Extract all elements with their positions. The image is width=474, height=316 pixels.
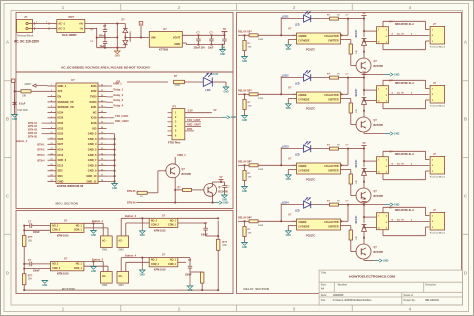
wire S3 to SW3 [102, 262, 104, 272]
svg-text:IO32: IO32 [58, 121, 64, 125]
ground emitter 1 [385, 73, 400, 77]
svg-text:LED: LED [206, 89, 211, 92]
svg-text:2: 2 [386, 215, 387, 217]
svg-text:2: 2 [386, 88, 387, 90]
resistor R3 470R led [174, 75, 185, 87]
svg-text:GND_4: GND_4 [88, 142, 97, 146]
relay K3 SRD-05VDC-SL-C [377, 150, 415, 173]
transistor Q4 BC547B [356, 244, 383, 259]
ground emitter bus [214, 201, 229, 205]
transistor Q5 BC547B [166, 164, 191, 178]
svg-text:TXD_UART: TXD_UART [115, 114, 129, 118]
svg-text:AC_IN: 110-220V: AC_IN: 110-220V [14, 40, 40, 44]
switch module SW2 [117, 236, 129, 252]
svg-text:10K: 10K [356, 50, 358, 54]
wire S1 bottom [23, 229, 50, 231]
svg-text:AC_DC BRIDGE VOLTAGE AREA, PL: AC_DC BRIDGE VOLTAGE AREA, PLEASE DO NOT… [61, 66, 150, 70]
net label Button_2 [121, 214, 149, 219]
resistor R17 10K pulldown [243, 221, 252, 242]
label mcu section [56, 201, 78, 205]
svg-text:1: 1 [432, 160, 433, 162]
svg-text:10K: 10K [356, 236, 358, 240]
svg-text:R??: R?? [222, 241, 227, 244]
svg-text:+Vo: +Vo [79, 22, 84, 26]
switch S1 KFM-1010 [50, 218, 84, 237]
svg-text:RELAY_SECTION: RELAY_SECTION [244, 287, 269, 291]
wire 5V output [182, 34, 225, 36]
svg-text:U?: U? [288, 157, 292, 161]
svg-text:BTN-01: BTN-01 [28, 121, 37, 125]
svg-text:PN?: PN? [69, 15, 75, 19]
svg-text:(+): (+) [91, 29, 94, 31]
ground S4 [139, 258, 145, 277]
wire led anode [185, 81, 204, 83]
svg-text:SW1: SW1 [102, 249, 108, 252]
ground relay input 1 [242, 57, 248, 63]
svg-text:K?: K? [390, 20, 394, 23]
resistor R20 1K led [311, 144, 348, 150]
svg-text:470R: 470R [175, 84, 181, 87]
diode D2 1N4007 [123, 31, 132, 48]
svg-text:IO26: IO26 [58, 137, 64, 141]
svg-text:GND: GND [42, 285, 47, 287]
wire coil pins 1 [363, 30, 376, 42]
resistor R12 220R [249, 161, 264, 171]
wire opto collector 2 [341, 93, 343, 95]
svg-text:GND: GND [286, 49, 291, 51]
svg-text:(+): (+) [91, 41, 94, 43]
svg-text:BTN-03: BTN-03 [28, 128, 37, 132]
svg-text:5: 5 [386, 222, 387, 224]
svg-text:LED: LED [295, 25, 300, 27]
svg-text:EMITTER: EMITTER [328, 171, 338, 173]
resistor R25 base [345, 226, 358, 252]
svg-text:Relay_3: Relay_3 [114, 98, 124, 102]
svg-text:Button_4: Button_4 [16, 139, 28, 143]
svg-text:C?: C? [197, 32, 201, 35]
wire ftdi rxd [185, 123, 202, 127]
svg-text:AC_IN: AC_IN [397, 92, 404, 95]
svg-text:AC~: AC~ [102, 275, 107, 278]
resistor R23 base [345, 99, 358, 125]
svg-text:Relay_1: Relay_1 [114, 88, 124, 92]
svg-text:GND: GND [242, 61, 247, 63]
svg-text:C?: C? [204, 222, 208, 225]
svg-text:EMITTER: EMITTER [328, 41, 338, 43]
svg-text:CMD: CMD [58, 179, 64, 183]
wire S2 to SW2 [120, 218, 122, 236]
wire base Q5 [158, 171, 166, 193]
relay K4 SRD-05VDC-SL-C [377, 206, 415, 229]
power port 5V out [222, 27, 228, 35]
net label RELAY-03 [238, 160, 251, 164]
wire S1 top [23, 225, 50, 227]
ground S3 [91, 262, 97, 273]
wire S3 lower to SW3 [84, 266, 108, 271]
capacitor C3 220uF [194, 32, 206, 50]
capacitor C8 100nF [28, 259, 40, 273]
svg-text:5V: 5V [363, 12, 366, 15]
wire S2 right to cap [178, 217, 219, 225]
svg-text:IO22: IO22 [91, 89, 97, 93]
svg-text:10K: 10K [22, 96, 27, 98]
svg-text:VOUT: VOUT [173, 35, 181, 39]
svg-text:BC547B: BC547B [374, 124, 384, 127]
svg-text:COM_2: COM_2 [151, 264, 160, 266]
ground emitter 4 [374, 259, 389, 263]
wire 3v3 rail mcu [14, 91, 16, 114]
resistor R15 10K pulldown [243, 94, 252, 115]
svg-text:Q?: Q? [218, 186, 222, 189]
resistor R16 10K pulldown [243, 165, 252, 186]
svg-text:+: + [140, 22, 142, 26]
wire opto collector 4 [341, 220, 343, 222]
ground mcu right [112, 184, 118, 190]
net label Button_4 [121, 254, 149, 259]
svg-text:220uF 25V: 220uF 25V [194, 47, 206, 49]
svg-text:GND_5: GND_5 [88, 148, 97, 152]
svg-text:U?: U? [288, 213, 292, 217]
svg-text:MR.ASHGD: MR.ASHGD [425, 299, 438, 302]
wire collector to coil 3 [363, 182, 365, 189]
wire S3 top [23, 263, 50, 265]
svg-text:3: 3 [386, 42, 387, 44]
svg-text:GND_7: GND_7 [88, 158, 97, 162]
svg-text:HOWTOELECTRONICS.COM: HOWTOELECTRONICS.COM [349, 275, 395, 279]
svg-text:IO2: IO2 [116, 79, 121, 83]
wire relay contact top 4 [383, 207, 429, 215]
svg-text:LED3: LED3 [282, 144, 289, 148]
svg-text:D: D [6, 271, 9, 276]
svg-text:RXD0: RXD0 [90, 100, 98, 104]
svg-text:IO23: IO23 [91, 84, 97, 88]
ground relay input 2 [242, 116, 248, 122]
svg-text:10K: 10K [222, 245, 227, 247]
mcu section box [16, 72, 233, 209]
svg-text:COM_1: COM_1 [168, 264, 177, 266]
wire ftdi dtr [185, 127, 194, 131]
svg-text:Date:: Date: [321, 294, 327, 297]
switch S4 KFM-1010 [149, 253, 178, 272]
wire opto anode branch 2 [281, 76, 296, 94]
capacitor C2 10uF [91, 38, 108, 49]
wire collector rail 2 [345, 73, 364, 94]
svg-text:100nF: 100nF [185, 275, 192, 277]
svg-text:BC547B: BC547B [374, 251, 384, 254]
net label relay-05 row [127, 190, 136, 193]
svg-text:5: 5 [386, 36, 387, 38]
wire collector rail 1 [345, 14, 364, 35]
svg-text:GND: GND [91, 271, 96, 273]
svg-text:AC~: AC~ [118, 240, 123, 243]
svg-text:GND_8: GND_8 [88, 163, 97, 167]
svg-text:Q?: Q? [374, 246, 378, 249]
svg-text:KFM-1010: KFM-1010 [57, 273, 69, 276]
svg-text:RXD_UART: RXD_UART [115, 119, 129, 123]
svg-text:GND_10: GND_10 [86, 174, 97, 178]
svg-text:220R: 220R [258, 39, 264, 41]
svg-text:S?: S? [64, 218, 68, 222]
svg-text:3: 3 [432, 41, 433, 43]
power port 5V relay 2 [362, 71, 367, 78]
svg-text:C?: C? [210, 32, 214, 35]
svg-text:IO34: IO34 [58, 110, 64, 114]
svg-text:IO27: IO27 [58, 142, 64, 146]
svg-text:IO19: IO19 [91, 116, 97, 120]
svg-text:AC~: AC~ [102, 240, 107, 243]
net label row2 [127, 201, 136, 204]
net label Button_3 [84, 258, 104, 263]
wire -Vo rail [85, 28, 98, 48]
svg-text:U?: U? [288, 86, 292, 90]
diode D6 1N4007 flyback [355, 148, 366, 183]
svg-text:KFM-1010: KFM-1010 [57, 234, 69, 237]
wire relay input 4 [238, 220, 282, 222]
svg-text:SENSOR_VP: SENSOR_VP [58, 100, 74, 104]
wire relay input 2 [238, 93, 282, 95]
svg-text:GND: GND [394, 73, 400, 76]
svg-text:NO_2: NO_2 [151, 260, 158, 262]
svg-text:BTN-1: BTN-1 [37, 143, 45, 146]
svg-text:GND_2: GND_2 [58, 158, 67, 162]
svg-text:COM_1: COM_1 [74, 268, 83, 270]
svg-text:5: 5 [386, 95, 387, 97]
svg-text:2: 2 [432, 165, 433, 167]
svg-text:+3.3V: +3.3V [212, 72, 219, 76]
svg-text:CATHODE: CATHODE [298, 170, 310, 173]
wire mcu gnd rail right [107, 134, 116, 184]
svg-text:ANODE: ANODE [298, 94, 307, 97]
svg-text:1K: 1K [337, 73, 340, 75]
mcu left button net labels [28, 121, 48, 139]
svg-text:U?: U? [71, 78, 75, 82]
wire coil pins 4 [363, 216, 376, 228]
terminal block J3 output [430, 22, 446, 49]
svg-text:-Vo: -Vo [79, 27, 83, 31]
capacitor C5 104 [221, 32, 227, 50]
svg-text:R??: R?? [28, 274, 33, 277]
svg-text:GND: GND [174, 42, 180, 46]
svg-text:3: 3 [386, 228, 387, 230]
mcu left lower net labels [37, 143, 45, 162]
svg-text:DTR: DTR [187, 127, 192, 131]
svg-text:10K: 10K [28, 240, 33, 242]
svg-text:ARM_1: ARM_1 [177, 153, 186, 157]
svg-text:BC547B: BC547B [374, 65, 384, 68]
svg-text:GND: GND [286, 179, 291, 181]
svg-text:EMITTER: EMITTER [328, 227, 338, 229]
wire regulator gnd rail [182, 43, 224, 46]
svg-text:GND: GND [222, 199, 227, 201]
svg-text:Relay_2: Relay_2 [114, 93, 124, 97]
svg-text:K?: K? [390, 206, 394, 209]
svg-text:BUTTON: BUTTON [62, 287, 75, 291]
svg-text:NO_1: NO_1 [170, 260, 177, 262]
svg-text:J?: J? [433, 22, 436, 26]
svg-text:SW2: SW2 [118, 249, 124, 252]
svg-text:NO_1: NO_1 [76, 264, 83, 266]
wire AC line [33, 21, 52, 25]
switch module SW4 [117, 272, 129, 288]
svg-text:GND: GND [140, 235, 145, 237]
svg-text:1: 1 [378, 215, 379, 217]
svg-text:GND: GND [394, 203, 400, 206]
svg-text:LED1: LED1 [282, 14, 289, 18]
svg-text:2: 2 [386, 29, 387, 31]
wire opto anode branch 3 [281, 147, 296, 165]
wire emitter gnd 4 [364, 259, 374, 261]
svg-text:10uF: 10uF [100, 46, 106, 48]
resistor R24 base [345, 170, 358, 196]
wire relay contact bottom 4 [383, 227, 429, 236]
switch module SW1 [101, 236, 113, 252]
svg-text:GND_6: GND_6 [88, 153, 97, 157]
svg-text:GND: GND [231, 116, 237, 119]
svg-text:IO12: IO12 [58, 153, 64, 157]
svg-text:GND_9: GND_9 [88, 169, 97, 173]
wire relay contact mid 4 [389, 219, 430, 222]
svg-text:GND: GND [91, 235, 96, 237]
svg-text:BC547B: BC547B [182, 173, 192, 176]
label relay section [244, 287, 269, 291]
wire status led row [127, 81, 168, 83]
svg-text:Button_2: Button_2 [125, 214, 137, 218]
ground S4 cap [187, 272, 193, 292]
wire coil pins 3 [363, 160, 376, 172]
svg-text:BTN-06: BTN-06 [127, 201, 136, 204]
svg-text:AC~: AC~ [118, 275, 123, 278]
wire emitter bus [137, 202, 215, 204]
svg-text:10K: 10K [248, 232, 252, 234]
wire S1 lower to SW1 [84, 228, 108, 236]
svg-text:5V: 5V [363, 71, 366, 74]
svg-text:Sheet of: Sheet of [404, 294, 414, 297]
svg-text:ANODE: ANODE [298, 35, 307, 38]
warning text AC DC area [61, 66, 150, 70]
svg-text:3: 3 [432, 100, 433, 102]
net label RELAY-01 [238, 30, 251, 34]
svg-text:IO25: IO25 [58, 132, 64, 136]
svg-text:GND_3: GND_3 [88, 137, 97, 141]
wire diode to regulator [124, 26, 149, 38]
svg-text:AC_IN: AC_IN [397, 163, 404, 166]
wire relay contact top 1 [383, 21, 429, 29]
wire opto collector 3 [341, 164, 343, 166]
svg-text:Terminal Block: Terminal Block [430, 105, 446, 107]
svg-text:GND_11: GND_11 [86, 179, 97, 183]
svg-text:10K: 10K [356, 180, 358, 184]
ground opto cathode 4 [285, 226, 292, 238]
transistor Q6 BC547B [204, 184, 228, 197]
svg-text:BTN-2: BTN-2 [37, 149, 45, 152]
ground power input caps [114, 48, 120, 58]
svg-text:ESP32-WROOM-32: ESP32-WROOM-32 [57, 184, 84, 188]
ground relay input 3 [242, 187, 248, 193]
svg-text:EMITTER: EMITTER [328, 100, 338, 102]
wire emitter gnd 1 [364, 73, 385, 75]
svg-text:BTN-05: BTN-05 [28, 134, 37, 138]
svg-text:SD2: SD2 [58, 169, 64, 173]
svg-text:C?: C? [28, 221, 32, 224]
mcu uart net labels [107, 114, 130, 123]
wire coil pins 2 [363, 89, 376, 101]
transistor Q2 BC547B [356, 117, 383, 132]
svg-text:5V: 5V [363, 142, 366, 145]
svg-text:Revision: Revision [425, 282, 436, 286]
wire opto anode branch 1 [281, 17, 296, 35]
header P1 FTDI [168, 104, 185, 144]
svg-text:AC~2: AC~2 [58, 27, 65, 31]
svg-text:B: B [6, 117, 9, 122]
wire S4 right to cap [178, 258, 190, 263]
title block [319, 270, 462, 305]
svg-text:BTN-05: BTN-05 [127, 190, 136, 193]
switch module SW3 [101, 272, 113, 288]
svg-text:FTDI Pins: FTDI Pins [168, 141, 181, 145]
svg-text:1: 1 [378, 29, 379, 31]
svg-text:Q?: Q? [374, 60, 378, 63]
wire relay contact mid 1 [389, 33, 430, 36]
svg-text:GND?: GND? [25, 83, 32, 86]
wire capacitor rails [97, 24, 126, 49]
svg-text:Title: Title [321, 271, 327, 275]
svg-text:5V: 5V [363, 198, 366, 201]
ground relay input 4 [242, 243, 248, 249]
terminal block J5 output [430, 152, 446, 179]
svg-text:3: 3 [386, 172, 387, 174]
svg-text:Q?: Q? [374, 119, 378, 122]
svg-text:PC817C: PC817C [306, 107, 315, 110]
svg-text:10K: 10K [356, 109, 358, 113]
svg-text:BC547B: BC547B [374, 195, 384, 198]
svg-text:COM_1: COM_1 [168, 225, 177, 227]
wire relay contact top 2 [383, 80, 429, 88]
svg-text:IO21: IO21 [91, 105, 97, 109]
wire relay contact mid 3 [389, 163, 430, 166]
diode D1 1N4007 [122, 18, 128, 37]
resistor R21 1K led [311, 200, 348, 206]
wire ftdi txd [185, 118, 201, 122]
svg-text:5V: 5V [220, 176, 223, 179]
svg-text:GND: GND [223, 202, 229, 205]
label AC_IN 110-220V [14, 40, 40, 44]
svg-text:1N4007: 1N4007 [355, 215, 358, 224]
switch S2 KFM-1010 [149, 213, 178, 232]
net label ARM_1 collector [175, 153, 186, 164]
relay K2 SRD-05VDC-SL-C [377, 79, 415, 102]
svg-text:U?: U? [163, 27, 167, 31]
svg-text:K?: K? [390, 79, 394, 82]
terminal block J6 output [430, 208, 446, 235]
svg-text:Terminal Block: Terminal Block [430, 232, 446, 234]
svg-text:SRD-05VDC-SL-C: SRD-05VDC-SL-C [395, 210, 414, 212]
svg-text:5V: 5V [223, 27, 226, 31]
label button section [62, 287, 75, 291]
svg-text:IO35: IO35 [58, 116, 64, 120]
transistor Q1 BC547B [356, 58, 383, 73]
optocoupler U3 PC817C [288, 27, 345, 52]
svg-text:LED: LED [295, 84, 300, 86]
power port 5V relay 1 [362, 12, 367, 19]
svg-text:ANODE: ANODE [298, 221, 307, 224]
svg-text:IO18: IO18 [91, 121, 97, 125]
svg-text:CAP CER: CAP CER [17, 109, 28, 112]
diode D7 1N4007 flyback [355, 204, 366, 239]
svg-text:0.1uF: 0.1uF [19, 102, 26, 105]
resistor R19 1K led [311, 73, 348, 79]
svg-text:GND: GND [242, 120, 247, 122]
svg-text:VIN: VIN [151, 35, 156, 39]
